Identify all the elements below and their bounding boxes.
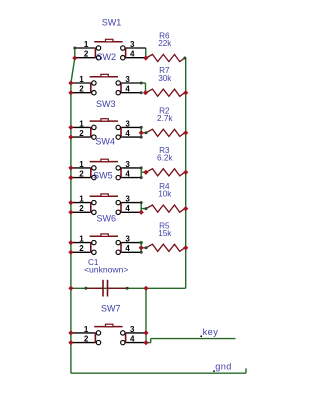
svg-text:3: 3 bbox=[130, 40, 135, 49]
node SW2 pin4 bbox=[140, 91, 143, 94]
svg-text:30k: 30k bbox=[158, 74, 172, 83]
wire gnd end stub bbox=[245, 368, 247, 373]
svg-text:SW6: SW6 bbox=[97, 214, 117, 224]
svg-text:4: 4 bbox=[125, 129, 130, 138]
wire SW5 pin3-pin4 tie bbox=[140, 203, 142, 213]
svg-text:2: 2 bbox=[79, 170, 84, 179]
junction SW5 pin1 bbox=[68, 200, 73, 205]
wire key jog right bbox=[146, 342, 151, 344]
svg-text:2: 2 bbox=[84, 50, 89, 59]
svg-text:4: 4 bbox=[130, 50, 135, 59]
wire key jog up bbox=[150, 339, 152, 343]
svg-text:2: 2 bbox=[84, 335, 89, 344]
resistor R5 bbox=[146, 244, 185, 251]
svg-text:3: 3 bbox=[125, 75, 130, 84]
switch SW2 bbox=[71, 74, 141, 95]
wire gnd horizontal bbox=[71, 372, 246, 374]
junction SW6 pin2 bbox=[68, 250, 73, 255]
junction R7 left bbox=[143, 90, 148, 95]
node R2 left bbox=[145, 131, 148, 134]
node SW2 pin3 bbox=[140, 82, 143, 85]
node SW3 pin4 bbox=[140, 136, 143, 139]
svg-text:3: 3 bbox=[130, 325, 135, 334]
net key bbox=[200, 335, 202, 337]
junction SW7 pin2 bbox=[68, 340, 73, 345]
node SW3 pin3 bbox=[140, 126, 143, 129]
resistor R4 bbox=[146, 205, 185, 212]
wire SW4 pin3-pin4 tie bbox=[140, 168, 142, 178]
resistor R2 bbox=[146, 129, 185, 136]
junction SW3 pin2 bbox=[68, 135, 73, 140]
junction SW7 pin4 bbox=[143, 340, 148, 345]
svg-text:22k: 22k bbox=[158, 39, 172, 48]
svg-text:1: 1 bbox=[84, 325, 89, 334]
svg-text:2: 2 bbox=[79, 204, 84, 213]
svg-text:SW3: SW3 bbox=[96, 99, 116, 109]
node SW4 pin4 bbox=[140, 176, 143, 179]
junction R6 left bbox=[143, 55, 148, 60]
junction SW6 pin1 bbox=[68, 240, 73, 245]
svg-text:1: 1 bbox=[79, 119, 84, 128]
junction R3 left bbox=[143, 170, 148, 175]
wire SW3 pin3-pin4 tie bbox=[140, 127, 142, 137]
junction right bus tap bbox=[183, 170, 188, 175]
svg-text:1: 1 bbox=[79, 195, 84, 204]
node C1 pin1 bbox=[84, 287, 87, 290]
svg-text:1: 1 bbox=[79, 75, 84, 84]
svg-text:SW4: SW4 bbox=[95, 136, 115, 146]
svg-text:2: 2 bbox=[79, 129, 84, 138]
junction SW2 pin1 bbox=[68, 80, 73, 85]
svg-text:SW2: SW2 bbox=[97, 52, 117, 62]
switch SW7 bbox=[71, 324, 146, 345]
switch SW6 bbox=[71, 234, 141, 255]
svg-text:4: 4 bbox=[125, 244, 130, 253]
wire SW1 pin1 to pin2 bbox=[74, 48, 76, 58]
switch SW4 bbox=[71, 159, 141, 180]
junction right bus tap bbox=[183, 206, 188, 211]
svg-text:3: 3 bbox=[125, 160, 130, 169]
svg-text:SW7: SW7 bbox=[101, 304, 121, 314]
svg-text:1: 1 bbox=[79, 160, 84, 169]
junction SW7 pin1 bbox=[68, 330, 73, 335]
svg-text:1: 1 bbox=[79, 235, 84, 244]
junction left bus C1 row bbox=[68, 286, 73, 291]
wire SW2 pin3 jog down to R7 bbox=[145, 83, 147, 93]
svg-text:key: key bbox=[203, 327, 219, 337]
svg-text:2.7k: 2.7k bbox=[157, 114, 173, 123]
svg-text:3: 3 bbox=[125, 195, 130, 204]
svg-text:4: 4 bbox=[130, 335, 135, 344]
wire C1 row horizontal bbox=[71, 287, 186, 289]
svg-text:1: 1 bbox=[84, 40, 89, 49]
svg-text:2: 2 bbox=[79, 244, 84, 253]
node SW6 pin3 bbox=[140, 241, 143, 244]
svg-text:SW5: SW5 bbox=[93, 170, 113, 180]
node SW1 pin1 wire end bbox=[73, 47, 76, 50]
junction SW6 tie bbox=[139, 245, 144, 250]
wire SW2 pin3 jog right bbox=[141, 82, 145, 84]
svg-text:SW1: SW1 bbox=[102, 17, 122, 27]
wire drop C1 row to SW7 pins bbox=[145, 288, 147, 342]
junction SW5 pin4 bbox=[139, 210, 144, 215]
node SW5 pin3 bbox=[140, 201, 143, 204]
junction C1 row drop bbox=[143, 286, 148, 291]
svg-text:10k: 10k bbox=[158, 190, 172, 199]
svg-text:3: 3 bbox=[125, 119, 130, 128]
svg-text:6.2k: 6.2k bbox=[157, 153, 173, 162]
junction SW4 pin1 bbox=[68, 165, 73, 170]
svg-text:<unknown>: <unknown> bbox=[84, 265, 128, 275]
wire tap to R5 bbox=[141, 247, 146, 249]
switch SW5 bbox=[71, 194, 141, 215]
node SW6 pin4 bbox=[140, 251, 143, 254]
svg-text:4: 4 bbox=[125, 85, 130, 94]
wire tap to R2 bbox=[141, 132, 146, 134]
svg-text:3: 3 bbox=[125, 235, 130, 244]
node R6 right bus corner bbox=[183, 57, 186, 60]
svg-text:gnd: gnd bbox=[215, 362, 232, 372]
wire key horizontal bbox=[151, 338, 236, 340]
resistor R7 bbox=[146, 89, 185, 96]
wire tap to R3 bbox=[141, 171, 146, 173]
junction SW7 pin3 bbox=[143, 330, 148, 335]
node C1 pin2 bbox=[126, 287, 129, 290]
wire SW6 pin3-pin4 tie bbox=[140, 243, 142, 253]
junction right bus tap bbox=[183, 90, 188, 95]
net gnd bbox=[213, 370, 215, 372]
resistor R6 bbox=[146, 54, 185, 61]
wire right bus bbox=[185, 58, 187, 288]
junction SW4 pin2 bbox=[68, 175, 73, 180]
junction SW2 pin2 bbox=[68, 90, 73, 95]
svg-text:4: 4 bbox=[125, 204, 130, 213]
node R5 left bbox=[145, 246, 148, 249]
wire SW1 pin2 down to SW2 pin1 bbox=[71, 58, 75, 83]
capacitor C1 bbox=[86, 280, 127, 297]
node R4 left bbox=[145, 207, 148, 210]
wire SW1 pin3 to R6 bbox=[145, 48, 147, 58]
junction right bus tap bbox=[183, 130, 188, 135]
junction right bus tap bbox=[183, 245, 188, 250]
switch SW1 bbox=[75, 39, 146, 60]
svg-text:15k: 15k bbox=[158, 229, 172, 238]
wire left bus down to gnd corner bbox=[70, 83, 72, 373]
junction SW3 pin1 bbox=[68, 125, 73, 130]
node SW4 pin3 bbox=[140, 166, 143, 169]
resistor R3 bbox=[146, 169, 185, 176]
junction SW1 pin2 bbox=[72, 55, 77, 60]
junction SW5 pin2 bbox=[68, 210, 73, 215]
wire tap to R4 bbox=[141, 208, 146, 210]
switch SW3 bbox=[71, 119, 141, 140]
svg-text:4: 4 bbox=[125, 170, 130, 179]
svg-text:2: 2 bbox=[79, 85, 84, 94]
junction SW3 tie bbox=[139, 130, 144, 135]
